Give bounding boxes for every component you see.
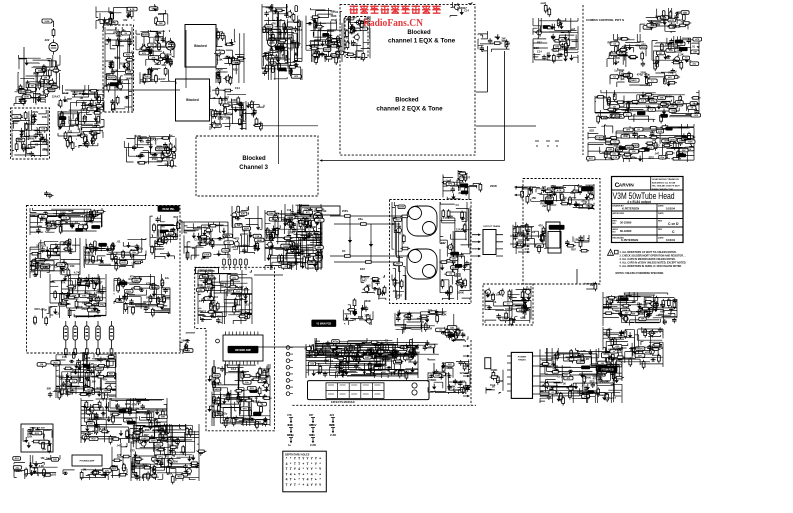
svg-text:.022: .022 — [123, 19, 128, 22]
svg-text:C3: C3 — [385, 339, 389, 343]
svg-text:4: 4 — [286, 478, 288, 482]
svg-text:R07: R07 — [67, 97, 72, 101]
svg-text:R23: R23 — [297, 28, 303, 32]
svg-text:560K: 560K — [33, 71, 39, 75]
svg-text:33K: 33K — [450, 327, 454, 329]
svg-text:33K: 33K — [662, 17, 666, 19]
svg-text:4.7K: 4.7K — [121, 466, 128, 470]
svg-text:OUTPUT TRANS: OUTPUT TRANS — [483, 225, 501, 228]
svg-text:1u: 1u — [614, 68, 618, 72]
svg-text:250V: 250V — [36, 226, 42, 229]
svg-text:4.7K: 4.7K — [41, 218, 47, 222]
svg-text:470: 470 — [454, 184, 459, 188]
svg-text:220K: 220K — [268, 213, 274, 215]
svg-text:100K: 100K — [231, 98, 237, 102]
svg-text:.022: .022 — [456, 381, 462, 385]
svg-text:220K: 220K — [152, 286, 158, 290]
svg-text:REV: REV — [658, 229, 663, 231]
svg-text:6.8K: 6.8K — [615, 348, 621, 352]
svg-text:.022: .022 — [392, 289, 398, 293]
svg-text:REVERB DRIVE: REVERB DRIVE — [34, 266, 51, 268]
svg-text:470: 470 — [234, 236, 239, 240]
svg-text:6.8K: 6.8K — [520, 317, 525, 320]
svg-text:47K: 47K — [265, 30, 270, 34]
svg-text:COMBO CONTROL POT S: COMBO CONTROL POT S — [586, 18, 624, 22]
svg-text:220K: 220K — [253, 399, 261, 403]
svg-text:330K: 330K — [31, 214, 39, 218]
svg-text:4.7K: 4.7K — [502, 318, 507, 321]
svg-text:1K: 1K — [563, 382, 567, 386]
svg-text:2W: 2W — [217, 397, 221, 400]
svg-text:1K: 1K — [171, 227, 175, 231]
svg-text:.01: .01 — [74, 220, 78, 224]
svg-text:100K: 100K — [625, 75, 631, 77]
svg-text:100K: 100K — [449, 384, 457, 388]
svg-text:12AX7: 12AX7 — [157, 77, 166, 81]
svg-text:12AX7: 12AX7 — [459, 371, 469, 375]
svg-text:.01: .01 — [131, 437, 136, 441]
svg-text:Blocked: Blocked — [242, 156, 266, 162]
svg-text:1K: 1K — [217, 366, 220, 370]
svg-text:10K: 10K — [42, 115, 48, 119]
svg-text:2.2K: 2.2K — [344, 17, 350, 21]
svg-text:4: 4 — [286, 462, 288, 466]
svg-text:10K: 10K — [59, 383, 65, 387]
svg-text:10K: 10K — [72, 295, 76, 297]
svg-text:1M: 1M — [294, 64, 299, 68]
svg-text:470p: 470p — [647, 345, 653, 349]
svg-text:15K: 15K — [406, 358, 410, 360]
svg-text:K.PETERSEN: K.PETERSEN — [621, 238, 638, 242]
svg-text:4: 4 — [311, 472, 313, 476]
svg-text:T: T — [311, 478, 313, 482]
svg-text:1u: 1u — [392, 263, 395, 267]
svg-text:47K: 47K — [217, 381, 222, 385]
svg-text:220K: 220K — [490, 184, 498, 188]
svg-text:1K: 1K — [212, 96, 215, 100]
svg-text:47K: 47K — [41, 215, 45, 218]
svg-text:220K: 220K — [584, 376, 592, 380]
svg-text:22u: 22u — [637, 301, 642, 305]
svg-text:1u: 1u — [330, 358, 334, 362]
svg-text:+: + — [302, 483, 304, 487]
svg-text:15K: 15K — [625, 156, 629, 158]
svg-text:250V: 250V — [395, 225, 401, 229]
svg-text:22u: 22u — [217, 411, 222, 415]
svg-text:470p: 470p — [581, 199, 587, 203]
svg-text:1N4007: 1N4007 — [146, 296, 156, 300]
svg-text:1K: 1K — [219, 52, 222, 54]
svg-text:1M: 1M — [174, 460, 179, 464]
svg-text:6.8K: 6.8K — [619, 52, 624, 54]
svg-text:2W: 2W — [374, 360, 379, 364]
svg-text:470: 470 — [231, 245, 236, 249]
svg-text:220K: 220K — [328, 29, 335, 33]
svg-text:22u: 22u — [295, 59, 300, 63]
svg-text:560K: 560K — [24, 96, 30, 98]
svg-text:R07: R07 — [84, 291, 90, 295]
svg-text:470p: 470p — [331, 19, 337, 22]
svg-text:47K: 47K — [695, 38, 699, 41]
svg-text:22u: 22u — [16, 467, 20, 469]
svg-text:R23: R23 — [329, 423, 335, 427]
svg-text:1N4007: 1N4007 — [460, 176, 471, 180]
svg-text:470: 470 — [450, 246, 455, 250]
svg-text:47K: 47K — [287, 26, 292, 30]
svg-text:10K: 10K — [619, 70, 624, 74]
svg-text:REVERB CNTL: REVERB CNTL — [35, 263, 51, 265]
svg-text:+: + — [319, 457, 321, 461]
svg-text:.047: .047 — [242, 229, 248, 233]
svg-text:1N4007: 1N4007 — [648, 330, 659, 334]
svg-text:470p: 470p — [100, 304, 106, 307]
svg-text:.022: .022 — [676, 18, 682, 22]
svg-text:470: 470 — [180, 451, 185, 455]
svg-text:47K: 47K — [645, 351, 649, 354]
svg-text:EF2: EF2 — [495, 35, 501, 39]
svg-text:FTSW PCB: FTSW PCB — [602, 370, 614, 372]
svg-text:R23: R23 — [465, 362, 471, 366]
svg-text:15K: 15K — [140, 429, 146, 433]
svg-text:.022: .022 — [201, 310, 207, 314]
svg-text:1u: 1u — [288, 444, 291, 447]
svg-text:.01: .01 — [581, 385, 585, 388]
svg-text:4.7K: 4.7K — [631, 156, 638, 160]
svg-text:2.2K: 2.2K — [39, 465, 44, 468]
svg-text:33K: 33K — [660, 98, 664, 100]
svg-text:470p: 470p — [603, 352, 610, 356]
svg-text:15K: 15K — [632, 301, 637, 304]
svg-text:4.7K: 4.7K — [555, 353, 562, 357]
svg-text:C14: C14 — [235, 86, 241, 90]
svg-text:6.8K: 6.8K — [328, 53, 334, 57]
svg-text:1K: 1K — [442, 361, 445, 365]
svg-text:15K: 15K — [690, 105, 695, 108]
svg-text:Blocked: Blocked — [194, 44, 206, 48]
svg-text:22u: 22u — [245, 382, 249, 384]
svg-text:2.2K: 2.2K — [85, 252, 90, 255]
svg-text:1N4007: 1N4007 — [155, 247, 165, 251]
svg-text:4.7K: 4.7K — [368, 351, 374, 355]
svg-text:4.7K: 4.7K — [125, 39, 130, 42]
svg-text:220K: 220K — [21, 145, 27, 149]
svg-text:R07: R07 — [358, 315, 364, 319]
svg-text:EF2: EF2 — [360, 267, 365, 271]
svg-text:EF2: EF2 — [649, 156, 655, 160]
svg-text:REVERB AMP: REVERB AMP — [235, 349, 251, 352]
svg-text:250V: 250V — [546, 196, 553, 200]
svg-text:1K: 1K — [342, 249, 346, 253]
svg-text:33K: 33K — [94, 212, 98, 214]
svg-text:10K: 10K — [215, 68, 220, 71]
svg-text:100K: 100K — [197, 283, 203, 287]
svg-text:NO: NO — [613, 223, 617, 225]
svg-text:R23: R23 — [313, 51, 319, 55]
svg-text:.047: .047 — [654, 153, 659, 156]
svg-text:R23: R23 — [97, 387, 102, 390]
svg-text:K.PETERSEN: K.PETERSEN — [622, 207, 639, 211]
svg-text:10K: 10K — [53, 459, 57, 461]
svg-text:1M: 1M — [79, 96, 83, 100]
svg-text:1M: 1M — [31, 86, 34, 88]
svg-text:560K: 560K — [621, 108, 628, 112]
svg-text:250V: 250V — [316, 253, 323, 257]
svg-text:1K: 1K — [492, 385, 495, 389]
svg-text:4.7K: 4.7K — [161, 238, 168, 242]
svg-text:EFFECT RTN: EFFECT RTN — [200, 270, 215, 273]
svg-text:100K: 100K — [382, 348, 388, 352]
svg-text:15K: 15K — [531, 196, 536, 200]
svg-text:TEL: 858-487-1600 FX 5877: TEL: 858-487-1600 FX 5877 — [652, 185, 681, 188]
svg-text:330K: 330K — [167, 472, 173, 475]
svg-text:10K: 10K — [66, 303, 71, 306]
svg-text:.022: .022 — [55, 388, 60, 391]
svg-text:1K: 1K — [227, 243, 230, 245]
svg-text:2W: 2W — [92, 380, 96, 384]
svg-text:30-33080: 30-33080 — [620, 221, 632, 225]
svg-text:4.7K: 4.7K — [130, 8, 135, 11]
svg-text:C14: C14 — [63, 91, 69, 95]
svg-text:2.2K: 2.2K — [658, 131, 663, 133]
svg-text:EF2: EF2 — [428, 309, 433, 312]
svg-text:5. ALL RESISTORS IN OHMS, K=10: 5. ALL RESISTORS IN OHMS, K=1000 UNLESS … — [620, 265, 683, 268]
svg-text:.047: .047 — [399, 346, 405, 350]
svg-text:R23: R23 — [42, 141, 48, 145]
svg-text:15K: 15K — [641, 319, 645, 321]
svg-text:10K: 10K — [70, 264, 75, 268]
svg-text:RadioFans.CN: RadioFans.CN — [363, 18, 424, 29]
svg-text:+: + — [294, 478, 296, 482]
svg-text:T: T — [294, 483, 296, 487]
svg-text:T: T — [285, 472, 287, 476]
svg-text:100K: 100K — [283, 246, 289, 248]
svg-text:PHONES AMP: PHONES AMP — [80, 460, 95, 463]
svg-text:Blocked: Blocked — [395, 98, 419, 104]
svg-text:10K: 10K — [577, 389, 583, 393]
svg-text:12AX7: 12AX7 — [322, 346, 330, 349]
svg-text:C3: C3 — [243, 244, 247, 248]
svg-text:22u: 22u — [165, 277, 170, 280]
svg-text:channel 1 EQX & Tone: channel 1 EQX & Tone — [388, 38, 456, 44]
svg-text:EF2: EF2 — [558, 374, 563, 378]
svg-text:R23: R23 — [86, 357, 91, 360]
svg-text:47K: 47K — [241, 213, 245, 216]
svg-text:22u: 22u — [563, 197, 568, 200]
svg-text:470p: 470p — [155, 448, 161, 452]
svg-text:C14: C14 — [83, 279, 88, 283]
svg-text:4.7K: 4.7K — [672, 58, 678, 62]
svg-text:250V: 250V — [104, 391, 110, 393]
svg-text:R07: R07 — [570, 47, 575, 50]
svg-text:2W: 2W — [683, 137, 687, 140]
svg-text:80-33080: 80-33080 — [620, 229, 632, 233]
svg-text:EF2: EF2 — [130, 448, 135, 452]
svg-text:10K: 10K — [309, 424, 314, 427]
svg-text:12AX7: 12AX7 — [141, 437, 148, 440]
svg-text:T: T — [285, 467, 287, 471]
svg-text:R07: R07 — [227, 289, 232, 293]
svg-text:R07: R07 — [537, 41, 542, 44]
svg-text:1K: 1K — [613, 106, 616, 108]
svg-text:.047: .047 — [694, 111, 700, 115]
svg-text:T: T — [306, 462, 308, 466]
svg-text:47K: 47K — [61, 282, 66, 285]
svg-text:220K: 220K — [395, 362, 401, 364]
svg-text:560K: 560K — [447, 214, 455, 218]
svg-text:R23: R23 — [118, 80, 124, 84]
svg-text:R07: R07 — [224, 96, 229, 100]
svg-text:1M: 1M — [291, 244, 296, 248]
svg-text:R23: R23 — [577, 184, 583, 188]
svg-text:33K: 33K — [639, 312, 645, 316]
svg-text:2W: 2W — [502, 36, 506, 40]
svg-text:250V: 250V — [158, 12, 165, 16]
svg-text:330K: 330K — [306, 260, 313, 264]
svg-text:2W: 2W — [352, 318, 356, 322]
svg-text:47K: 47K — [95, 357, 100, 361]
svg-text:100K: 100K — [623, 136, 629, 138]
svg-text:C3: C3 — [553, 48, 557, 52]
svg-text:4.7K: 4.7K — [287, 423, 293, 427]
svg-text:330K: 330K — [365, 313, 372, 317]
svg-text:C14: C14 — [609, 338, 615, 342]
svg-text:22u: 22u — [362, 29, 366, 31]
svg-text:C14: C14 — [537, 50, 542, 54]
svg-text:.047: .047 — [164, 431, 170, 435]
svg-text:220K: 220K — [206, 277, 214, 281]
svg-text:330K: 330K — [399, 207, 405, 209]
svg-text:100K: 100K — [38, 260, 44, 262]
svg-text:47K: 47K — [456, 272, 462, 276]
svg-text:2W: 2W — [132, 464, 137, 468]
svg-text:!: ! — [610, 251, 611, 255]
svg-text:250V: 250V — [111, 468, 117, 470]
svg-text:.022: .022 — [293, 262, 299, 266]
svg-text:DATE: DATE — [658, 237, 664, 240]
svg-text:1K: 1K — [131, 441, 134, 445]
svg-text:10K: 10K — [333, 42, 339, 46]
svg-text:C14: C14 — [525, 248, 530, 251]
svg-text:12AX7: 12AX7 — [236, 309, 245, 313]
svg-text:68K: 68K — [83, 92, 89, 96]
svg-text:470: 470 — [618, 36, 623, 40]
svg-text:4.7K: 4.7K — [156, 31, 162, 35]
svg-text:470: 470 — [318, 29, 323, 32]
svg-text:.047: .047 — [128, 277, 134, 281]
svg-text:250V: 250V — [342, 209, 348, 213]
svg-text:R23: R23 — [59, 302, 64, 306]
svg-text:APPROVED: APPROVED — [613, 212, 625, 215]
svg-text:47K: 47K — [597, 376, 603, 380]
svg-text:220K: 220K — [151, 440, 157, 442]
svg-text:68K: 68K — [364, 16, 370, 20]
svg-text:C14: C14 — [136, 440, 142, 444]
svg-text:4.7K: 4.7K — [580, 349, 586, 353]
svg-text:4: 4 — [307, 483, 309, 487]
svg-text:560K: 560K — [214, 375, 220, 377]
svg-text:220K: 220K — [125, 403, 131, 406]
svg-text:C14: C14 — [194, 238, 199, 242]
svg-text:10K: 10K — [280, 45, 284, 47]
svg-text:1M: 1M — [300, 262, 303, 265]
svg-text:4.7K: 4.7K — [669, 19, 674, 22]
svg-text:220K: 220K — [27, 436, 33, 439]
svg-text:.047: .047 — [238, 285, 244, 289]
svg-text:250V: 250V — [299, 253, 305, 257]
svg-text:+: + — [294, 472, 296, 476]
svg-text:15K: 15K — [380, 363, 385, 367]
svg-text:EF2: EF2 — [136, 154, 141, 158]
svg-text:C3: C3 — [674, 109, 678, 113]
svg-text:330K: 330K — [309, 434, 315, 437]
svg-text:4.7K: 4.7K — [74, 270, 81, 274]
svg-text:4.7K: 4.7K — [82, 223, 87, 226]
svg-text:R07: R07 — [601, 364, 607, 368]
svg-text:1M: 1M — [77, 92, 82, 96]
svg-text:.022: .022 — [41, 244, 47, 248]
svg-text:2W: 2W — [668, 72, 672, 75]
svg-text:1M: 1M — [104, 23, 109, 27]
svg-text:68K: 68K — [90, 109, 94, 111]
svg-text:1N4007: 1N4007 — [18, 90, 26, 93]
svg-text:6.8K: 6.8K — [118, 300, 123, 302]
svg-text:R07: R07 — [161, 225, 166, 229]
svg-text:33K: 33K — [127, 72, 131, 74]
svg-text:1M: 1M — [416, 350, 421, 354]
svg-text:12340 WORLD TRADE DR.: 12340 WORLD TRADE DR. — [652, 178, 680, 181]
svg-text:.022: .022 — [329, 413, 335, 417]
svg-text:330K: 330K — [233, 62, 239, 64]
svg-text:EF2: EF2 — [521, 305, 527, 309]
svg-text:1N4007: 1N4007 — [626, 146, 634, 149]
svg-text:12AX7: 12AX7 — [149, 137, 158, 141]
svg-text:R23: R23 — [68, 130, 73, 133]
svg-text:REV: REV — [658, 221, 663, 223]
svg-text:100K: 100K — [220, 286, 226, 289]
svg-text:2W: 2W — [542, 204, 547, 208]
svg-text:1N4007: 1N4007 — [156, 148, 164, 151]
svg-text:.01: .01 — [607, 348, 612, 352]
svg-text:R07: R07 — [397, 293, 402, 297]
svg-text:MAIN PCB: MAIN PCB — [314, 209, 327, 213]
svg-text:2.2K: 2.2K — [355, 367, 362, 371]
svg-text:C14: C14 — [665, 43, 670, 46]
svg-text:R07: R07 — [143, 300, 148, 304]
svg-text:8 OHM OUT: 8 OHM OUT — [37, 269, 50, 271]
svg-text:22u: 22u — [692, 64, 696, 66]
svg-text:330K: 330K — [364, 299, 371, 303]
svg-text:R07: R07 — [608, 41, 613, 44]
svg-text:C14: C14 — [287, 209, 292, 212]
svg-text:.047: .047 — [440, 241, 446, 245]
svg-text:.01: .01 — [531, 230, 535, 234]
svg-text:22u: 22u — [646, 104, 651, 108]
svg-text:6.8K: 6.8K — [115, 56, 121, 60]
svg-text:R23: R23 — [233, 68, 238, 72]
svg-text:1M: 1M — [40, 456, 45, 460]
svg-text:4.7K: 4.7K — [557, 189, 562, 192]
svg-text:1K: 1K — [147, 410, 150, 413]
svg-text:470p: 470p — [407, 344, 413, 348]
svg-text:250V: 250V — [270, 63, 276, 65]
svg-text:1K: 1K — [621, 78, 624, 81]
svg-text:+: + — [319, 472, 321, 476]
svg-text:12AX7: 12AX7 — [131, 261, 139, 265]
svg-text:.047: .047 — [225, 117, 231, 121]
svg-text:.01: .01 — [203, 225, 208, 229]
svg-text:22u: 22u — [358, 217, 363, 221]
svg-text:560K: 560K — [257, 240, 263, 242]
